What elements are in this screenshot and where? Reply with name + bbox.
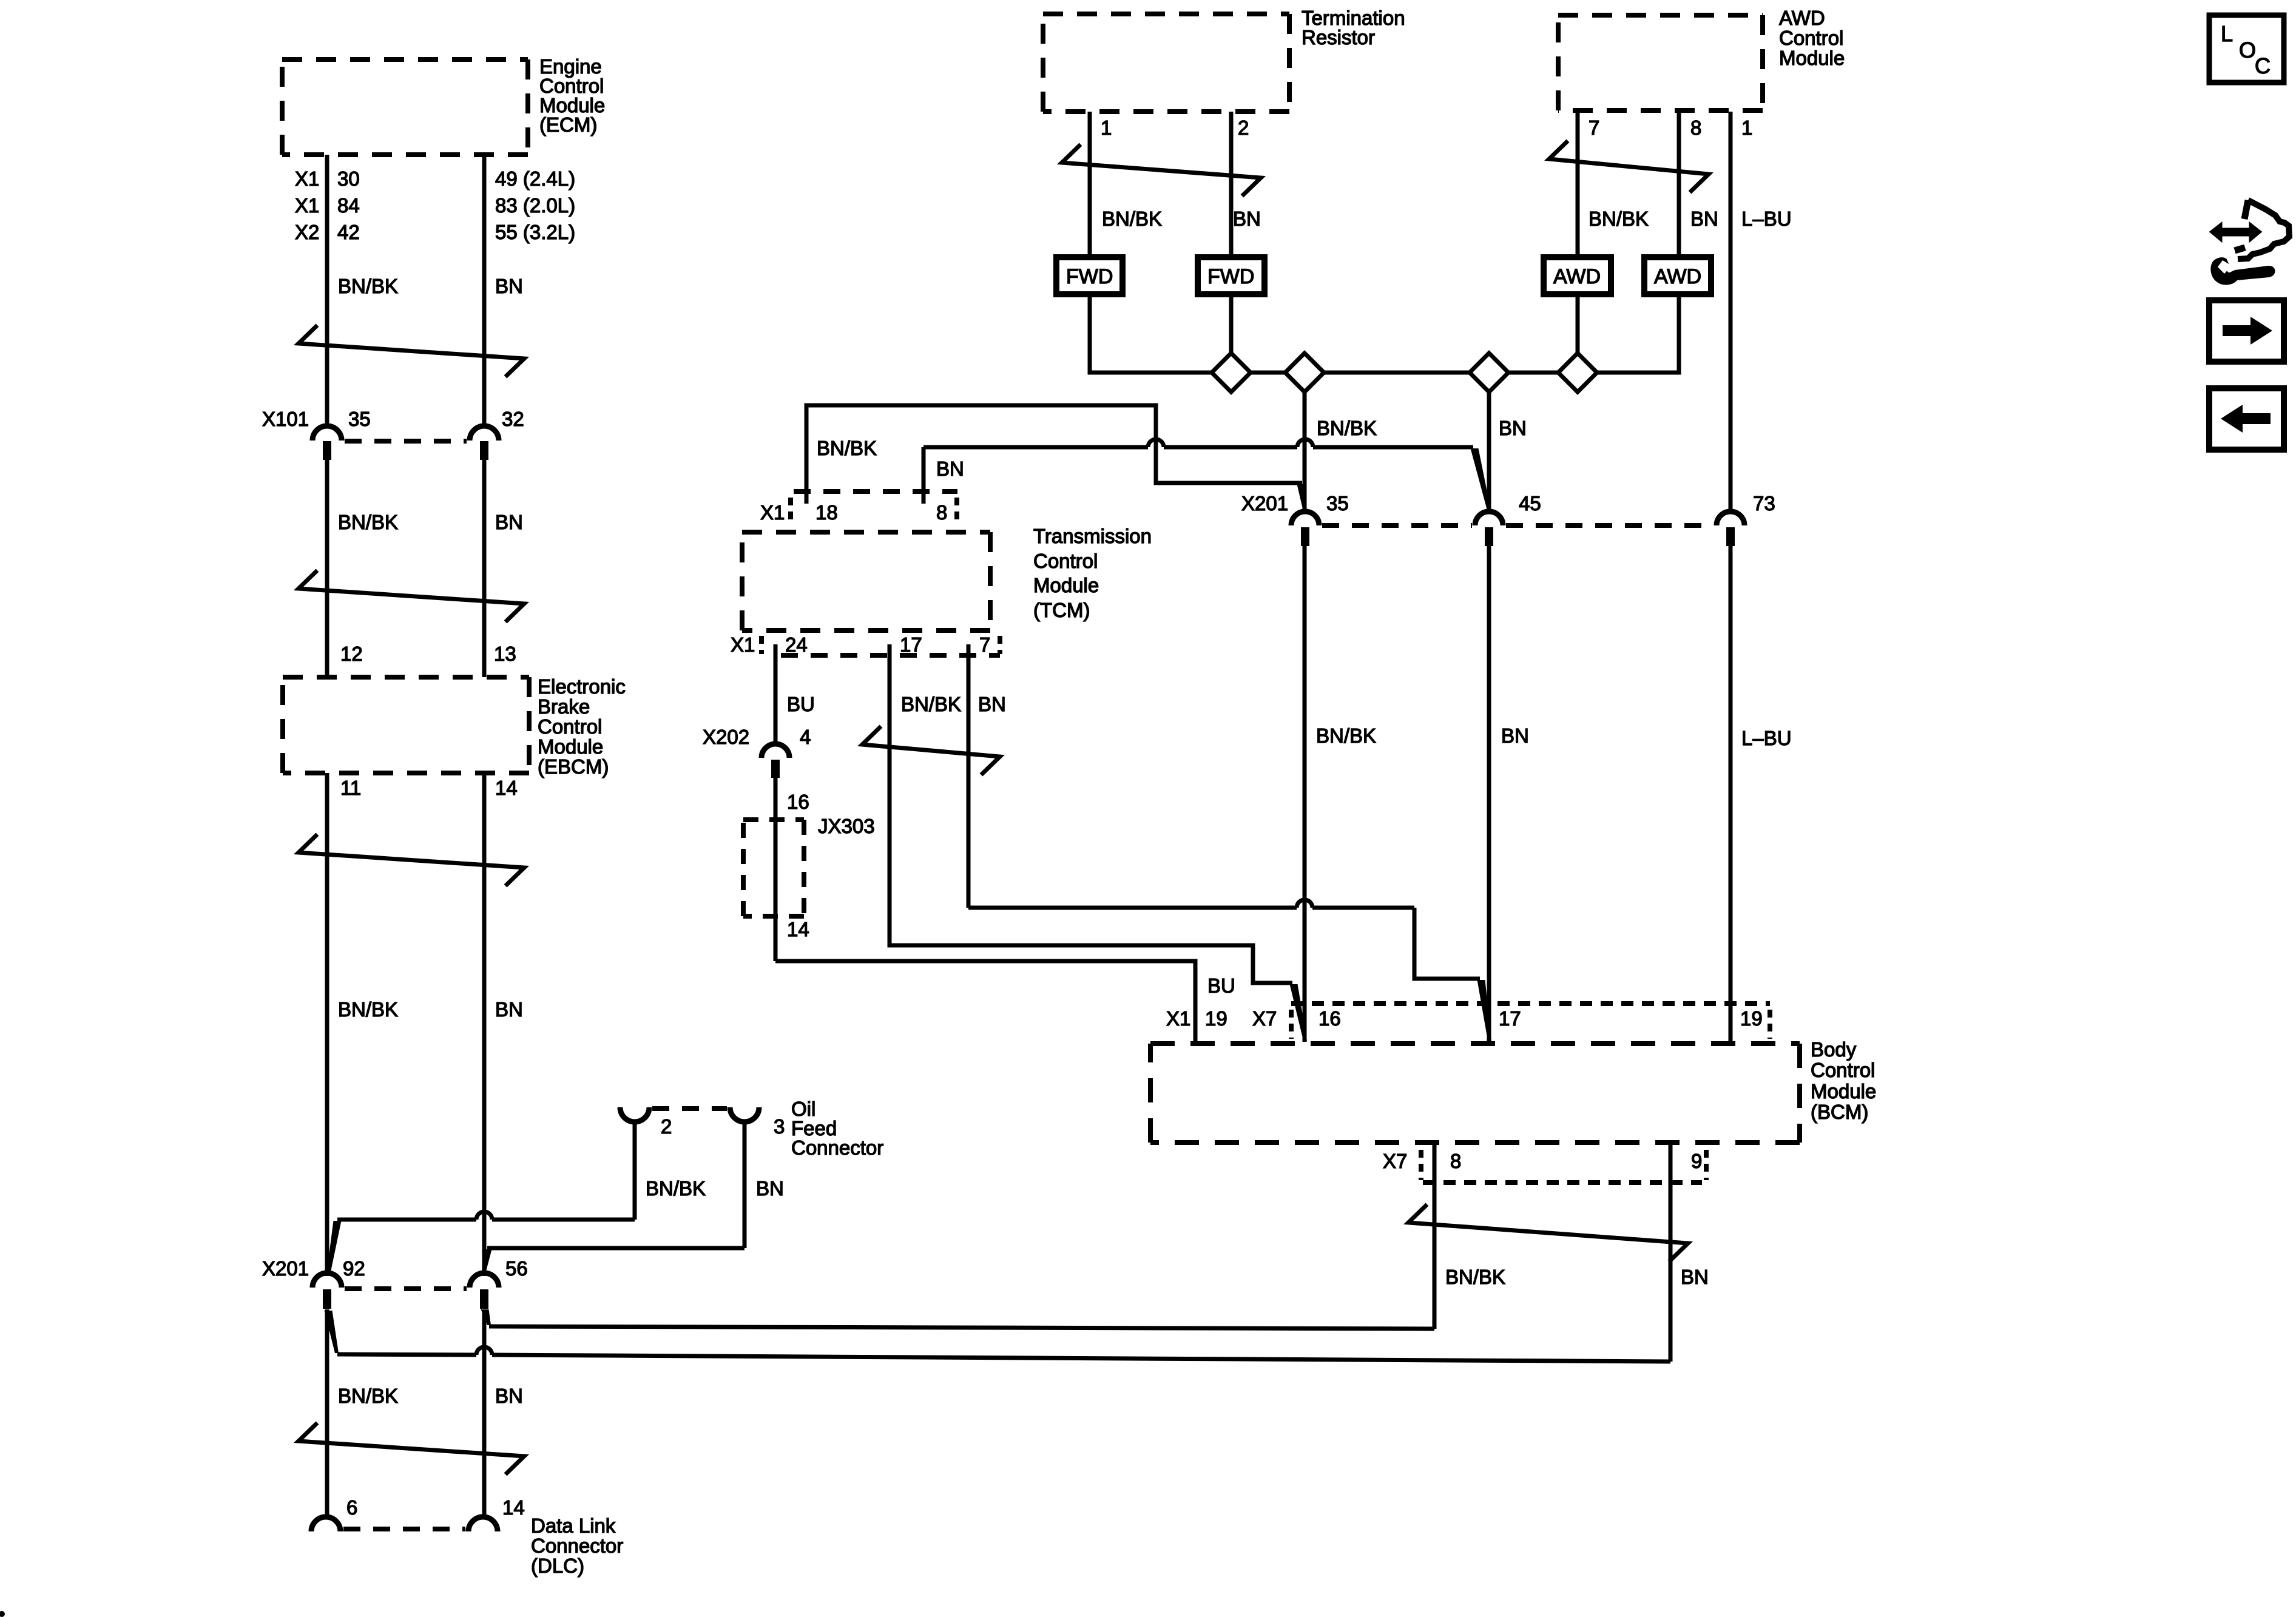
svg-text:4: 4 [800, 726, 811, 748]
wire: X201-73 L-BU down to BCM 19 [1729, 546, 1733, 1044]
svg-text:8: 8 [936, 501, 947, 524]
svg-text:8: 8 [1690, 116, 1701, 139]
FWD splice box 1 [1056, 257, 1123, 294]
svg-text:Connector: Connector [531, 1534, 623, 1557]
svg-text:X1: X1 [295, 167, 319, 190]
AWD splice box 1 [1544, 257, 1611, 294]
svg-text:L: L [2221, 21, 2233, 46]
svg-text:(EBCM): (EBCM) [538, 755, 609, 778]
oil feed connector pin 2 arc [620, 1107, 649, 1122]
TCM X1 bottom connector left edge [759, 636, 764, 654]
svg-text:7: 7 [1589, 116, 1599, 139]
svg-text:Control: Control [1033, 550, 1098, 572]
connector X101 pin 32 terminal [480, 441, 488, 460]
svg-text:Module: Module [538, 735, 603, 758]
svg-text:X101: X101 [262, 408, 309, 430]
svg-text:X201: X201 [262, 1257, 309, 1280]
TCM X1 top connector right edge [954, 498, 959, 524]
module box: Transmission Control Module (TCM) [742, 532, 990, 630]
connector X201 pin 45 arc [1475, 511, 1503, 525]
AWD splice box 2 [1644, 257, 1711, 294]
wire: TCM X1-18 BN/BK to X201-35 [806, 405, 1302, 504]
twisted-pair symbol TP3 [299, 834, 524, 886]
connector X201 pin 35 arc [1291, 511, 1319, 525]
svg-text:BN: BN [1499, 417, 1527, 439]
svg-text:X201: X201 [1241, 492, 1288, 515]
svg-text:(TCM): (TCM) [1033, 599, 1090, 621]
svg-text:3: 3 [774, 1115, 785, 1138]
svg-text:7: 7 [979, 633, 990, 656]
svg-text:19: 19 [1740, 1007, 1763, 1030]
svg-text:BN/BK: BN/BK [338, 998, 398, 1021]
svg-text:13: 13 [494, 643, 516, 665]
svg-text:BN/BK: BN/BK [1589, 208, 1649, 230]
connector X201 dashed line 45-73 [1506, 523, 1714, 528]
connector X201 dashed line [345, 1286, 467, 1291]
svg-text:16: 16 [787, 791, 809, 813]
svg-text:1: 1 [1101, 116, 1112, 139]
page dot artifact [0, 1611, 5, 1617]
svg-text:L–BU: L–BU [1741, 727, 1792, 749]
svg-text:84: 84 [337, 194, 360, 217]
svg-text:C: C [2255, 53, 2271, 78]
svg-text:73: 73 [1753, 492, 1775, 515]
wire: AWD pin 8 BN [1677, 112, 1681, 257]
svg-text:BU: BU [1207, 974, 1235, 997]
svg-text:14: 14 [502, 1496, 525, 1519]
svg-text:9: 9 [1691, 1150, 1702, 1172]
svg-text:BN: BN [1690, 208, 1718, 230]
twisted-pair symbol TP1 [299, 325, 524, 377]
svg-text:2: 2 [661, 1115, 672, 1138]
module box: Termination Resistor [1043, 14, 1289, 112]
twisted-pair symbol TP7 [862, 726, 1000, 775]
svg-text:BN: BN [495, 511, 523, 533]
connector X101 dashed line [345, 439, 467, 444]
svg-text:(DLC): (DLC) [531, 1555, 584, 1577]
wire: X201-35 BN/BK down to BCM X7-16 [1303, 546, 1307, 1042]
BCM X7 bottom connector left edge [1419, 1150, 1423, 1180]
wire: FWD2 down to splice diamond [1229, 294, 1234, 353]
svg-text:56: 56 [505, 1257, 528, 1280]
wire: oil feed 2 BN/BK to X201-92 [633, 1122, 637, 1220]
connector X201 pin 92 arc [312, 1273, 342, 1288]
svg-text:BN/BK: BN/BK [1445, 1266, 1505, 1288]
svg-text:32: 32 [502, 408, 524, 430]
twisted-pair symbol TP6 [1549, 141, 1709, 192]
bus segment diamond2-diamond3 [1324, 371, 1470, 375]
svg-text:Body: Body [1811, 1038, 1857, 1061]
svg-text:Module: Module [1033, 574, 1099, 596]
wire: FWD1 down and right to bus [1090, 294, 1212, 373]
connector DLC pin 14 arc [468, 1517, 498, 1531]
TCM X1 top connector dashed line [794, 489, 957, 494]
svg-text:BN/BK: BN/BK [338, 1385, 398, 1407]
svg-text:(BCM): (BCM) [1811, 1101, 1868, 1123]
connector DLC dashed line [343, 1527, 465, 1531]
svg-text:X7: X7 [1252, 1007, 1277, 1030]
connector X101 pin 35 terminal [323, 441, 331, 460]
svg-text:X1: X1 [760, 501, 785, 524]
module box: Electronic Brake Control Module (EBCM) [283, 677, 529, 773]
icon: diagnostic arrows and wrench [2210, 223, 2261, 241]
connector X201 pin 73 arc [1717, 511, 1744, 525]
svg-text:18: 18 [815, 501, 838, 524]
svg-text:JX303: JX303 [818, 815, 875, 837]
svg-text:X2: X2 [295, 221, 319, 243]
svg-text:X1: X1 [295, 194, 319, 217]
oil feed connector pin 3 arc [730, 1107, 759, 1122]
TCM X1 top connector left edge [788, 498, 793, 524]
module box: AWD Control Module [1558, 15, 1763, 110]
wire: ECM pin 30 BN/BK down to X101 [325, 155, 329, 427]
svg-text:2: 2 [1238, 116, 1249, 139]
svg-text:FWD: FWD [1207, 265, 1254, 288]
connector DLC pin 6 arc [311, 1517, 340, 1531]
connector X101 pin 35 arc [312, 426, 342, 441]
wire: X201-56 branch to BCM X7-8 [481, 1309, 491, 1325]
wire: ECM pin 49 BN down to X101 [482, 155, 487, 427]
junction block JX303 dashed box [743, 820, 804, 916]
wire: X201-56 BN down to DLC 14 [482, 1309, 487, 1518]
wire: oil feed 3 BN to X201-56 [743, 1122, 747, 1248]
svg-text:BN/BK: BN/BK [901, 693, 961, 715]
wire: X201-92 branch to BCM X7-9 [325, 1311, 339, 1353]
twisted-pair symbol TP2 [299, 570, 524, 622]
connector X201 pin 45 terminal [1485, 527, 1493, 546]
splice diamond 3 [1470, 353, 1508, 392]
svg-text:35: 35 [1326, 492, 1349, 515]
connector X202 pin 4 arc [761, 744, 789, 758]
svg-text:35: 35 [348, 408, 371, 430]
svg-text:BN/BK: BN/BK [1102, 208, 1162, 230]
wire: X101-32 to EBCM 13 [482, 460, 487, 677]
wire: AWD pin 1 L-BU down to X201-73 [1729, 112, 1733, 513]
connector X201 pin 56 arc [470, 1273, 499, 1288]
svg-text:BN/BK: BN/BK [646, 1177, 706, 1200]
svg-text:L–BU: L–BU [1741, 208, 1792, 230]
wire: EBCM 14 BN down to X201 [482, 773, 487, 1276]
svg-text:24: 24 [785, 633, 808, 656]
FWD splice box 2 [1198, 257, 1264, 294]
svg-text:X202: X202 [703, 726, 749, 748]
svg-text:O: O [2239, 38, 2256, 62]
svg-text:92: 92 [343, 1257, 365, 1280]
svg-text:BN/BK: BN/BK [1317, 417, 1377, 439]
svg-text:Transmission: Transmission [1033, 525, 1152, 547]
svg-text:BN/BK: BN/BK [1316, 724, 1376, 747]
svg-text:AWD: AWD [1654, 265, 1701, 288]
svg-text:17: 17 [1499, 1007, 1521, 1030]
BCM X7 top connector dashed line [1291, 1001, 1770, 1006]
icon: LOC box [2209, 15, 2284, 83]
wire: termination pin 2 BN [1229, 112, 1234, 257]
TCM X1 bottom connector dashed line [781, 653, 1000, 658]
wire: termination pin 1 BN/BK [1088, 112, 1092, 257]
svg-text:45: 45 [1519, 492, 1541, 515]
connector X201 pin 56 terminal [480, 1289, 488, 1309]
svg-text:6: 6 [346, 1496, 357, 1519]
svg-text:30: 30 [337, 167, 360, 190]
connector X101 pin 32 arc [470, 426, 499, 441]
wire: AWD1 splice down to diamond [1576, 294, 1580, 353]
svg-text:Module: Module [1779, 47, 1845, 69]
svg-text:BN: BN [978, 693, 1006, 715]
twisted-pair symbol TP4 [299, 1423, 524, 1474]
wire: X201-45 BN down to BCM X7-17 [1487, 546, 1491, 1042]
svg-text:BN: BN [495, 275, 523, 297]
svg-text:(ECM): (ECM) [539, 113, 597, 136]
svg-text:Control: Control [1811, 1059, 1875, 1081]
bus segment diamond3-diamond4 [1508, 371, 1558, 375]
module box: Body Control Module (BCM) [1150, 1044, 1800, 1143]
icon: back arrow box [2209, 388, 2284, 450]
svg-text:14: 14 [787, 918, 809, 940]
svg-text:1: 1 [1741, 116, 1752, 139]
svg-text:AWD: AWD [1779, 7, 1825, 29]
BCM X7 top connector left edge [1289, 1010, 1294, 1039]
svg-text:19: 19 [1205, 1007, 1227, 1030]
BCM X7 top connector right edge [1768, 1010, 1772, 1039]
svg-text:Control: Control [1779, 27, 1843, 49]
svg-text:BN: BN [1681, 1266, 1709, 1288]
wire: AWD pin 7 BN/BK [1576, 112, 1580, 257]
svg-text:BN: BN [936, 457, 964, 480]
BCM X7 bottom connector right edge [1704, 1150, 1709, 1180]
connector X201 pin 35 terminal [1301, 527, 1309, 546]
svg-text:14: 14 [495, 777, 518, 799]
icon: forward arrow box [2209, 300, 2284, 362]
wire: X202-4 through JX303 to BCM X1-19 [774, 778, 778, 961]
svg-text:Connector: Connector [791, 1136, 883, 1159]
svg-text:X1: X1 [1166, 1007, 1190, 1030]
connector X202 pin 4 terminal [771, 760, 780, 778]
svg-text:BN: BN [756, 1177, 784, 1200]
svg-text:16: 16 [1319, 1007, 1341, 1030]
svg-text:Control: Control [538, 715, 602, 738]
bus segment diamond4 to AWD8 corner [1597, 294, 1679, 373]
svg-text:42: 42 [337, 221, 360, 243]
svg-text:Electronic: Electronic [538, 675, 626, 698]
svg-text:X1: X1 [731, 633, 755, 656]
splice diamond 2 [1285, 353, 1324, 392]
svg-text:83 (2.0L): 83 (2.0L) [495, 194, 575, 217]
splice diamond 1 [1212, 353, 1251, 392]
wire: TCM X1-17 BN/BK to BCM X7-16 [890, 644, 1292, 983]
svg-text:11: 11 [340, 777, 361, 799]
wire: TCM X1-8 BN to X201-45 [922, 447, 926, 504]
svg-text:49 (2.4L): 49 (2.4L) [495, 167, 575, 190]
wire: EBCM 11 BN/BK down to X201 [325, 773, 329, 1276]
svg-text:Data Link: Data Link [531, 1514, 616, 1537]
svg-text:BN: BN [1501, 724, 1529, 747]
svg-text:BN/BK: BN/BK [338, 275, 398, 297]
svg-text:FWD: FWD [1066, 265, 1113, 288]
wire: TCM X1-24 BU to X202-4 [774, 644, 778, 746]
connector X201 pin 73 terminal [1726, 527, 1735, 546]
module box: Engine Control Module (ECM) [282, 59, 528, 155]
svg-text:BN/BK: BN/BK [338, 511, 398, 533]
bus segment diamond1-diamond2 [1251, 371, 1285, 375]
svg-text:BN/BK: BN/BK [817, 437, 877, 459]
twisted-pair symbol TP5 [1062, 144, 1261, 196]
oil feed connector dashed line [652, 1106, 727, 1111]
wire: diamond3 BN down to X201-45 [1487, 392, 1491, 513]
svg-text:AWD: AWD [1553, 265, 1601, 288]
svg-text:BN: BN [495, 998, 523, 1021]
svg-text:BU: BU [787, 693, 815, 715]
splice diamond 4 [1558, 353, 1597, 392]
svg-text:BN: BN [495, 1385, 523, 1407]
connector X201 pin 92 terminal [323, 1289, 331, 1309]
svg-text:X7: X7 [1383, 1150, 1407, 1172]
wire: X201-92 BN/BK down to DLC 6 [325, 1309, 329, 1518]
svg-text:BN: BN [1233, 208, 1261, 230]
svg-text:Resistor: Resistor [1302, 26, 1375, 49]
wire: diamond2 BN/BK down to X201-35 [1303, 392, 1307, 513]
svg-text:55 (3.2L): 55 (3.2L) [495, 221, 575, 243]
svg-text:12: 12 [340, 643, 363, 665]
wire: TCM X1-7 BN to BCM X7-17 [967, 644, 971, 908]
svg-text:Brake: Brake [538, 695, 590, 718]
svg-text:Module: Module [1811, 1080, 1876, 1102]
svg-text:17: 17 [900, 633, 922, 656]
wire: X101-35 to EBCM 12 [325, 460, 329, 677]
connector X201 dashed line 35-45 [1322, 523, 1472, 528]
svg-text:8: 8 [1450, 1150, 1461, 1172]
BCM X7 bottom connector dashed line [1423, 1180, 1702, 1185]
twisted-pair symbol TP8 [1408, 1204, 1688, 1261]
TCM X1 bottom connector right edge [998, 636, 1002, 654]
